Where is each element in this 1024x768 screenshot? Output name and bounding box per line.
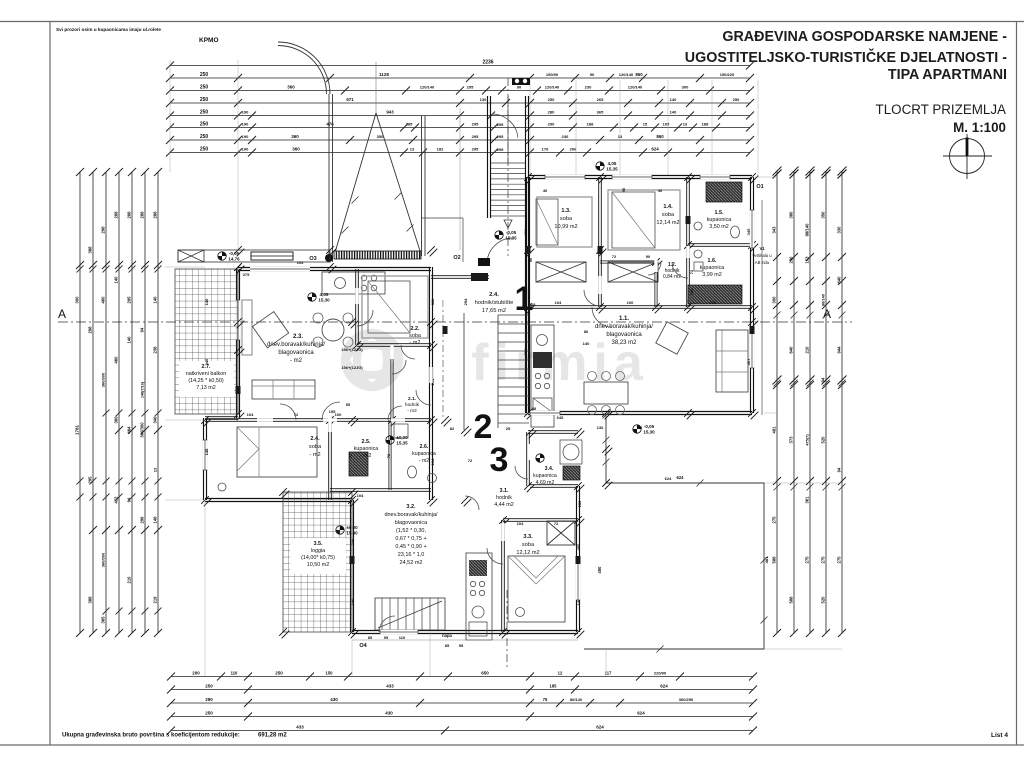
svg-text:- m2: - m2 [410, 340, 421, 346]
apt3 stairs [375, 598, 445, 630]
svg-text:2.4.: 2.4. [310, 436, 320, 442]
svg-text:210: 210 [805, 346, 810, 354]
svg-text:90: 90 [517, 85, 522, 90]
svg-text:10,50 m2: 10,50 m2 [307, 562, 329, 568]
svg-text:kupaonica: kupaonica [412, 451, 436, 457]
svg-text:0,45 * 0,90 +: 0,45 * 0,90 + [395, 544, 426, 550]
left column tick clusters [77, 478, 84, 485]
svg-text:361: 361 [805, 496, 810, 504]
svg-text:3.3.: 3.3. [523, 534, 533, 540]
svg-text:13: 13 [618, 134, 623, 139]
svg-text:200: 200 [192, 671, 200, 676]
apt1 kitchen strip [531, 325, 554, 427]
right dimension columns [776, 171, 778, 633]
svg-text:230: 230 [350, 538, 355, 545]
svg-text:290: 290 [205, 697, 213, 702]
roof ridge triangle [334, 113, 376, 256]
bath 3.4 walls [528, 430, 578, 432]
svg-text:90: 90 [528, 257, 533, 262]
apt1 partition baths split [688, 243, 752, 245]
svg-text:104: 104 [710, 300, 717, 305]
room 2.3 armchair [253, 312, 289, 348]
svg-text:140: 140 [350, 598, 355, 605]
svg-text:hodnik: hodnik [405, 402, 420, 408]
room 2.6 fixtures [408, 466, 417, 478]
svg-text:72: 72 [468, 458, 473, 463]
apt2 door arcs [322, 402, 340, 420]
svg-text:280: 280 [548, 110, 555, 115]
svg-text:UGOSTITELJSKO-TURISTIČKE DJELA: UGOSTITELJSKO-TURISTIČKE DJELATNOSTI - [685, 48, 1007, 66]
apt2 window top wall [250, 267, 310, 271]
svg-text:640: 640 [789, 346, 794, 354]
room 1.3 finish outline [537, 197, 592, 247]
canopy vertical double line left [328, 94, 330, 262]
svg-text:365: 365 [101, 616, 106, 624]
svg-text:A: A [58, 307, 66, 321]
svg-text:250: 250 [733, 97, 740, 102]
svg-text:130: 130 [597, 425, 604, 430]
bath 3.4 shower [560, 440, 582, 464]
svg-text:±0,00: ±0,00 [396, 435, 408, 440]
svg-text:275: 275 [772, 516, 777, 524]
svg-text:295: 295 [472, 134, 479, 139]
svg-text:kupaonica: kupaonica [354, 446, 379, 452]
right column tick clusters [774, 380, 781, 387]
svg-text:13: 13 [410, 147, 415, 152]
apt3 outer wall right [576, 486, 578, 632]
room 2.4 lamp [218, 483, 226, 491]
svg-text:72: 72 [348, 453, 353, 458]
svg-text:130: 130 [480, 97, 487, 102]
svg-text:104: 104 [555, 300, 562, 305]
apt2 outer wall left upper [236, 269, 238, 418]
dimension row 2 [170, 77, 750, 79]
svg-text:360: 360 [287, 85, 295, 90]
terrace 2.7 hatch [175, 269, 238, 414]
svg-text:4,69 m2: 4,69 m2 [536, 480, 555, 486]
entry door arc [487, 238, 513, 264]
svg-text:3.1.: 3.1. [500, 488, 509, 494]
svg-text:111: 111 [430, 298, 435, 305]
room 1.6 fixtures [694, 250, 702, 258]
room 2.3 sideboard [242, 300, 252, 355]
svg-text:520: 520 [821, 596, 826, 604]
svg-text:236: 236 [562, 134, 569, 139]
svg-text:860: 860 [656, 134, 664, 139]
room 1.6 hatch floor [688, 285, 742, 304]
apt3 top wall right part [530, 484, 578, 486]
bottom dimension row 1 [171, 676, 753, 678]
page frame top border [0, 21, 1024, 23]
svg-text:481: 481 [772, 426, 777, 434]
landing outline [421, 217, 463, 219]
svg-text:Ukupna građevinska bruto površ: Ukupna građevinska bruto površina s koef… [62, 733, 240, 739]
svg-text:300: 300 [772, 296, 777, 304]
svg-text:80/140: 80/140 [570, 697, 583, 702]
svg-text:15,30: 15,30 [318, 298, 330, 303]
apt1 door arcs [592, 307, 612, 327]
svg-text:148: 148 [153, 516, 158, 524]
svg-text:650: 650 [481, 671, 489, 676]
junction tick marks [441, 416, 449, 424]
svg-text:691,28 m2: 691,28 m2 [258, 733, 287, 739]
svg-text:95: 95 [384, 635, 389, 640]
svg-text:250: 250 [200, 97, 209, 103]
svg-text:72: 72 [554, 521, 559, 526]
svg-text:288: 288 [153, 211, 158, 219]
svg-text:3.2.: 3.2. [406, 504, 416, 510]
plan-to-column guide lines [165, 266, 205, 268]
svg-text:360: 360 [291, 134, 299, 139]
svg-text:120/140: 120/140 [545, 85, 560, 90]
wardrobe xbox 1 [536, 262, 586, 282]
svg-text:soba: soba [409, 333, 421, 339]
apt1 outer wall bottom [528, 411, 752, 413]
loggia 3.5 hatch [283, 492, 352, 632]
svg-text:250: 250 [200, 110, 209, 116]
svg-text:360/300: 360/300 [101, 552, 106, 567]
svg-text:TIPA APARTMANI: TIPA APARTMANI [888, 67, 1007, 83]
room 1.5 fixtures [694, 222, 702, 230]
svg-text:343: 343 [772, 226, 777, 234]
svg-text:190: 190 [242, 134, 249, 139]
svg-text:290: 290 [548, 122, 555, 127]
bottom dimension row 3 [171, 702, 753, 704]
svg-text:38,23 m2: 38,23 m2 [611, 340, 637, 346]
svg-text:72: 72 [612, 254, 617, 259]
svg-text:12,14 m2: 12,14 m2 [656, 220, 679, 226]
svg-text:O3: O3 [309, 256, 316, 262]
svg-text:72: 72 [386, 453, 391, 458]
left dimension columns [79, 172, 81, 633]
svg-text:82: 82 [450, 426, 455, 431]
bath 3.4 hatch [563, 466, 580, 480]
terrace 2.7 label [179, 361, 234, 397]
stair top door arc [492, 114, 518, 138]
svg-text:94: 94 [821, 377, 826, 382]
svg-text:645: 645 [557, 415, 564, 420]
apt2 partition bedrooms [205, 418, 431, 420]
svg-text:- m2: - m2 [290, 358, 303, 364]
svg-text:380: 380 [789, 211, 794, 219]
svg-text:388: 388 [88, 246, 93, 254]
svg-text:3,99 m2: 3,99 m2 [702, 272, 721, 278]
svg-text:120/140: 120/140 [628, 85, 643, 90]
svg-text:12,12 m2: 12,12 m2 [516, 550, 539, 556]
svg-text:250: 250 [200, 134, 209, 140]
svg-text:KPMO: KPMO [199, 37, 219, 44]
svg-text:- m2: - m2 [309, 452, 320, 458]
svg-text:soba: soba [309, 444, 322, 450]
door opening gaps [598, 276, 601, 294]
svg-text:15,35: 15,35 [396, 441, 408, 446]
svg-text:14,76: 14,76 [228, 257, 240, 262]
svg-text:298: 298 [101, 226, 106, 234]
svg-text:140: 140 [583, 341, 590, 346]
room 3.3 wardrobe [547, 521, 575, 545]
svg-text:72: 72 [689, 269, 694, 274]
dimension row 7 [170, 139, 750, 141]
svg-text:140: 140 [153, 296, 158, 304]
svg-text:soba: soba [560, 216, 573, 222]
svg-text:4,44 m2: 4,44 m2 [494, 502, 513, 508]
svg-text:250: 250 [200, 147, 209, 153]
svg-text:624: 624 [677, 475, 685, 480]
svg-text:1.3.: 1.3. [561, 208, 571, 214]
apt3 door arc [379, 616, 395, 632]
window symbol at stair top [512, 78, 530, 85]
svg-text:130: 130 [577, 500, 582, 507]
svg-text:88/140: 88/140 [822, 294, 826, 306]
svg-text:Svi prozori osim u kupaonicama: Svi prozori osim u kupaonicama imaju ul.… [56, 27, 161, 32]
apt2 partition 2.2 bottom [357, 343, 431, 345]
svg-text:105: 105 [663, 122, 670, 127]
apt3 kitchen strip [466, 553, 492, 640]
svg-text:(1,52 * 0,30,: (1,52 * 0,30, [396, 528, 426, 534]
svg-text:104: 104 [297, 260, 304, 265]
apt1 outer terrace edge [761, 200, 763, 415]
svg-text:296: 296 [140, 516, 145, 524]
canopy vertical double line right [421, 116, 423, 256]
marker core [386, 436, 394, 444]
svg-text:464: 464 [127, 426, 132, 434]
living 1.1 sofa [716, 330, 748, 392]
porch band outline [178, 250, 330, 262]
svg-text:150/220: 150/220 [720, 72, 735, 77]
svg-text:2.1.: 2.1. [408, 396, 416, 402]
svg-text:148: 148 [204, 448, 209, 455]
porch xbox [178, 250, 204, 262]
dimension row 5 [170, 115, 750, 117]
svg-text:24,52 m2: 24,52 m2 [400, 560, 423, 566]
svg-text:4,05: 4,05 [320, 292, 329, 297]
svg-text:275: 275 [805, 556, 810, 564]
window openings on walls [380, 630, 418, 634]
svg-text:85: 85 [368, 635, 373, 640]
svg-text:624: 624 [637, 711, 645, 716]
svg-text:156+(12JG): 156+(12JG) [341, 365, 363, 370]
right columns top ticks cluster [773, 167, 782, 176]
svg-text:294: 294 [523, 348, 528, 355]
svg-text:104: 104 [357, 493, 364, 498]
svg-text:3,50 m2: 3,50 m2 [709, 224, 728, 230]
porch bench dark [251, 252, 293, 260]
svg-text:219: 219 [153, 596, 158, 604]
svg-text:295: 295 [497, 134, 504, 139]
svg-text:(14,25 * k0,50): (14,25 * k0,50) [188, 378, 224, 384]
svg-text:295: 295 [497, 122, 504, 127]
svg-text:15,35: 15,35 [505, 236, 517, 241]
svg-text:475(?): 475(?) [806, 434, 810, 446]
svg-text:4,05: 4,05 [608, 161, 617, 166]
apt3 outer wall left [350, 500, 352, 632]
svg-text:294: 294 [463, 298, 468, 305]
svg-text:TLOCRT PRIZEMLJA: TLOCRT PRIZEMLJA [876, 102, 1007, 117]
svg-text:90: 90 [590, 72, 595, 77]
entrance canopy arc [278, 42, 330, 94]
stair treads [491, 162, 525, 164]
svg-text:624: 624 [651, 147, 659, 152]
svg-text:88/140: 88/140 [805, 223, 810, 236]
svg-text:88: 88 [532, 406, 537, 411]
svg-text:dnev.boravak/kuhinja/: dnev.boravak/kuhinja/ [384, 512, 438, 518]
apt2 windows left wall [236, 300, 240, 340]
svg-text:285: 285 [406, 122, 413, 127]
guide hairlines top [529, 80, 531, 176]
svg-text:V1: V1 [759, 246, 765, 251]
svg-text:natkriveni balkon: natkriveni balkon [186, 371, 226, 377]
compass north symbol [943, 134, 992, 179]
svg-text:288: 288 [114, 211, 119, 219]
svg-text:3: 3 [490, 441, 509, 479]
svg-text:2.5.: 2.5. [362, 439, 371, 445]
svg-text:3.5.: 3.5. [314, 541, 323, 547]
svg-text:250: 250 [200, 122, 209, 128]
svg-text:250: 250 [200, 72, 209, 78]
svg-text:2.4.: 2.4. [489, 292, 499, 298]
corridor centre dashed line [442, 300, 444, 420]
svg-text:298: 298 [88, 326, 93, 334]
svg-text:230: 230 [789, 256, 794, 264]
svg-text:90: 90 [638, 425, 643, 430]
apt2 partition 2.4/2.5 [328, 420, 330, 500]
svg-text:85: 85 [445, 643, 450, 648]
svg-text:430: 430 [330, 697, 338, 702]
svg-text:111: 111 [523, 228, 528, 235]
page frame bottom border [0, 744, 1024, 746]
room 2.4 bed [237, 427, 317, 477]
svg-text:1.1.: 1.1. [619, 316, 629, 322]
svg-text:295: 295 [467, 85, 474, 90]
stair shaft walls [487, 96, 489, 218]
svg-text:10,99 m2: 10,99 m2 [554, 224, 577, 230]
svg-text:288: 288 [140, 211, 145, 219]
svg-text:624: 624 [660, 684, 668, 689]
svg-text:944: 944 [837, 346, 842, 354]
svg-text:- m2: - m2 [407, 408, 417, 414]
svg-text:433: 433 [386, 684, 394, 689]
core door black mark [478, 258, 490, 266]
svg-text:M. 1:100: M. 1:100 [953, 120, 1006, 135]
bath 3.4 marker [536, 454, 544, 462]
svg-text:23,16 * 1,0: 23,16 * 1,0 [398, 552, 425, 558]
svg-text:330: 330 [837, 226, 842, 234]
svg-text:120/140: 120/140 [420, 85, 435, 90]
svg-text:94: 94 [837, 467, 842, 472]
room 2.2 bed [368, 281, 410, 333]
svg-text:190: 190 [242, 110, 249, 115]
svg-text:250: 250 [200, 85, 209, 91]
svg-text:25: 25 [506, 426, 511, 431]
apt2 partition 2.5/2.6 [388, 420, 390, 490]
svg-text:450: 450 [597, 566, 602, 574]
dimension row 6 [170, 127, 750, 129]
svg-text:40: 40 [543, 188, 548, 193]
svg-text:360/300: 360/300 [101, 372, 106, 387]
svg-text:153: 153 [805, 256, 810, 264]
svg-text:100: 100 [335, 412, 342, 417]
dimension row 2236 [170, 65, 750, 67]
svg-text:12: 12 [558, 671, 563, 676]
svg-text:List 4: List 4 [991, 732, 1008, 739]
svg-text:300: 300 [682, 85, 689, 90]
svg-text:295: 295 [472, 147, 479, 152]
apt2 outer wall top [238, 267, 431, 269]
svg-text:150/90: 150/90 [546, 72, 559, 77]
living 1.1 armchair [656, 322, 688, 354]
svg-text:238: 238 [153, 346, 158, 354]
svg-text:120/140: 120/140 [619, 72, 634, 77]
svg-text:1: 1 [515, 280, 534, 318]
svg-text:155: 155 [329, 409, 336, 414]
svg-text:13: 13 [153, 467, 158, 472]
svg-text:15: 15 [643, 122, 648, 127]
apt3 partition 3.3 [501, 520, 503, 632]
apt2 partition hodnik 2.1 [390, 345, 392, 420]
svg-text:-0,05: -0,05 [644, 424, 655, 429]
svg-text:140: 140 [670, 97, 677, 102]
bottom dimension row 2 [171, 689, 753, 691]
bottom dimension row 5 [171, 730, 753, 732]
svg-text:250: 250 [205, 711, 213, 716]
svg-text:- m2: - m2 [361, 453, 372, 459]
svg-text:460: 460 [114, 356, 119, 364]
svg-text:O1: O1 [756, 184, 763, 190]
wall openings black marks [526, 246, 531, 254]
svg-text:72: 72 [294, 412, 299, 417]
svg-text:185: 185 [550, 684, 558, 689]
svg-text:476: 476 [326, 122, 334, 127]
svg-text:2.6.: 2.6. [420, 444, 429, 450]
svg-text:1.4.: 1.4. [663, 204, 673, 210]
svg-text:90: 90 [621, 187, 626, 192]
svg-text:140: 140 [114, 276, 119, 284]
svg-text:360/300: 360/300 [140, 422, 145, 438]
svg-text:295: 295 [472, 122, 479, 127]
svg-text:vertikala u: vertikala u [752, 253, 772, 258]
svg-text:360: 360 [292, 147, 300, 152]
svg-text:640: 640 [837, 276, 842, 284]
room 1.4 finish outline [608, 190, 680, 250]
svg-text:140: 140 [204, 298, 209, 305]
svg-text:104: 104 [247, 412, 254, 417]
svg-text:94: 94 [140, 327, 145, 332]
svg-text:kupaonica: kupaonica [707, 217, 732, 223]
section line A-A [58, 321, 852, 323]
svg-text:kupaonica: kupaonica [533, 473, 557, 479]
apt2 partition 2.2 left [355, 269, 357, 345]
svg-text:80: 80 [584, 329, 589, 334]
svg-text:110: 110 [399, 635, 406, 640]
svg-text:176: 176 [542, 147, 549, 152]
terrace outline right [584, 415, 764, 649]
room 1.5 hatch floor [706, 182, 742, 202]
apt1 hodnik partition [654, 262, 656, 307]
apt2 bath bottom wall [330, 488, 431, 490]
svg-text:1781: 1781 [75, 424, 80, 435]
svg-text:blagovaonica: blagovaonica [606, 332, 642, 338]
apt1 windows on top wall [545, 175, 585, 179]
svg-text:15,35: 15,35 [606, 167, 618, 172]
room 3.3 lamp [516, 608, 525, 617]
canopy base hatched band [334, 251, 421, 259]
apt2 outer wall bottom [205, 498, 352, 500]
svg-text:110: 110 [231, 671, 238, 676]
svg-text:295: 295 [127, 296, 132, 304]
svg-text:481: 481 [764, 556, 769, 563]
svg-text:55: 55 [346, 402, 351, 407]
svg-text:388: 388 [88, 596, 93, 604]
